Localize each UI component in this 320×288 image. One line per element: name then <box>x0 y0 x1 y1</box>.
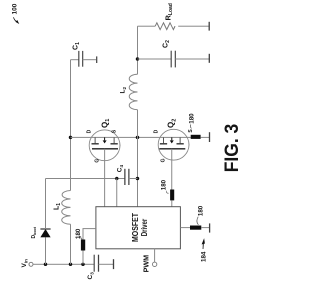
svg-text:180: 180 <box>161 179 168 190</box>
diode Dboot <box>40 229 50 237</box>
ground terminal driver bottom <box>209 223 211 232</box>
svg-text:G: G <box>160 158 166 162</box>
capacitor C3 <box>94 255 113 272</box>
wire v70 rail left <box>70 224 72 264</box>
wire leader 180 driver bottom <box>197 217 198 225</box>
wire driver supply left <box>82 251 84 265</box>
wire Q1 gate lead <box>104 149 106 207</box>
svg-text:100: 100 <box>12 3 19 14</box>
wire Vin rail <box>33 263 94 265</box>
inductor L1 <box>62 191 71 225</box>
wire 184 arrow <box>202 238 205 249</box>
node junction dot L1 tap <box>69 263 72 266</box>
ground terminal C2 <box>208 54 210 63</box>
wire Q2 source to terminal <box>201 136 210 138</box>
wire diode branch <box>45 237 47 264</box>
transistor Q1 <box>89 130 120 161</box>
wire diode to boot corner <box>45 179 47 230</box>
wire leader 180 driver supply <box>81 236 83 239</box>
svg-text:Driver: Driver <box>140 219 149 237</box>
wire Q2 gate lead to driver <box>171 200 173 206</box>
wire boot node to driver <box>116 179 118 207</box>
node junction dot drain stub <box>69 136 72 139</box>
svg-text:184: 184 <box>201 251 208 262</box>
op-amp U1 MOSFET Driver box <box>96 207 180 249</box>
resistor driver bottom (black box 180) <box>190 226 201 230</box>
svg-text:180: 180 <box>197 205 204 216</box>
svg-text:PWM: PWM <box>142 255 151 273</box>
wire leader 180 Q2 source <box>190 124 191 128</box>
wire boot column <box>46 178 117 180</box>
resistor gate Q2 (black box 180) <box>170 190 174 201</box>
wire driver supply right <box>83 229 96 240</box>
node junction dot diode tap <box>44 263 47 266</box>
wire FET chain <box>71 136 191 138</box>
node PWM terminal <box>152 262 156 266</box>
node Vin terminal <box>29 262 33 266</box>
svg-text:FIG. 3: FIG. 3 <box>222 124 240 173</box>
resistor Q2 source (black box 180) <box>191 135 201 139</box>
svg-text:180: 180 <box>189 113 196 124</box>
wire 100 arrow <box>14 17 20 24</box>
capacitor C1 <box>71 51 97 67</box>
resistor driver supply (black box 180) <box>81 240 85 251</box>
wire Q2 gate lead left <box>171 149 173 190</box>
node junction dot switch node <box>136 136 139 139</box>
node junction dot C4 bottom <box>136 177 139 180</box>
wire driver bottom branch <box>180 227 190 229</box>
ground terminal RLoad <box>208 22 210 31</box>
svg-text:MOSFET: MOSFET <box>131 213 140 242</box>
wire leader 180 gate Q2 <box>166 191 168 194</box>
node junction dot C2 tap <box>136 57 139 60</box>
wire SW rail left <box>137 110 139 207</box>
resistor RLoad <box>138 23 210 30</box>
node junction dot driver supply tap <box>81 263 84 266</box>
ground terminal Q2 source <box>209 132 211 142</box>
transistor Q2 <box>158 129 189 160</box>
svg-text:D: D <box>87 129 93 133</box>
inductor L2 <box>129 74 137 109</box>
capacitor C2 <box>138 51 210 68</box>
wire v70 rail right <box>70 60 72 191</box>
ground terminal C3 <box>113 259 115 269</box>
svg-text:G: G <box>94 159 100 163</box>
wire driver bottom to terminal <box>201 227 209 229</box>
wire SW rail right <box>137 26 139 74</box>
svg-text:D: D <box>153 129 159 133</box>
wire PWM to driver <box>154 249 156 262</box>
capacitor C4 <box>117 169 138 185</box>
node junction dot boot node <box>115 177 118 180</box>
